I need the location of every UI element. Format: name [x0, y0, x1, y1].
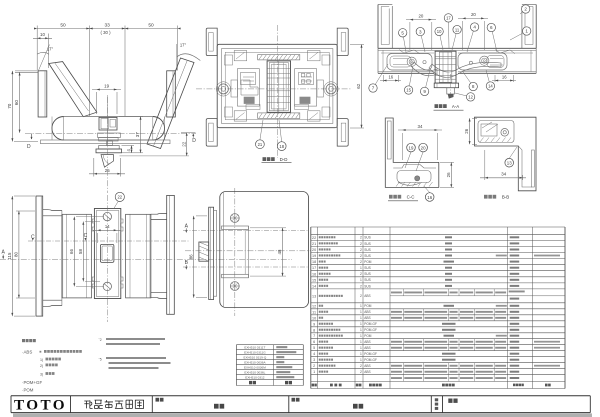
svg-text:ABS: ABS [364, 370, 370, 374]
svg-text:50: 50 [148, 23, 154, 29]
svg-text:11: 11 [455, 27, 460, 32]
svg-text:B-B: B-B [502, 194, 509, 199]
svg-text:1: 1 [360, 266, 362, 270]
svg-text:115: 115 [7, 252, 12, 260]
svg-text:TOTO: TOTO [14, 397, 67, 414]
svg-text:14: 14 [105, 224, 110, 229]
svg-text:2: 2 [313, 364, 315, 368]
svg-text:12: 12 [312, 304, 316, 308]
svg-text:34: 34 [501, 171, 506, 176]
svg-text:10: 10 [40, 32, 45, 37]
svg-text:POM: POM [364, 260, 372, 264]
svg-text:6: 6 [490, 25, 493, 30]
svg-text:1: 1 [360, 316, 362, 320]
svg-text:·ABS: ·ABS [22, 349, 32, 354]
svg-text:SUS: SUS [364, 236, 371, 240]
svg-text:2: 2 [524, 7, 527, 12]
svg-text:7: 7 [372, 86, 375, 91]
svg-text:POM-GF: POM-GF [364, 358, 377, 362]
svg-text:ABS: ABS [364, 340, 370, 344]
svg-text:14: 14 [488, 84, 493, 89]
svg-text:13: 13 [507, 161, 512, 166]
svg-text:‶5: ‶5 [99, 357, 102, 361]
svg-text:POM-GF: POM-GF [364, 322, 377, 326]
svg-text:17°: 17° [47, 47, 54, 52]
svg-text:12: 12 [468, 95, 473, 100]
svg-text:3: 3 [313, 358, 315, 362]
svg-text:10: 10 [437, 29, 442, 34]
svg-text:3: 3 [419, 29, 422, 34]
svg-text:1: 1 [360, 304, 362, 308]
svg-text:SUS: SUS [364, 266, 371, 270]
svg-text:62: 62 [356, 83, 361, 89]
svg-text:A-A: A-A [452, 104, 459, 109]
svg-text:37: 37 [135, 132, 140, 138]
svg-text:2: 2 [360, 242, 362, 246]
svg-text:ABS: ABS [364, 346, 370, 350]
svg-text:16: 16 [388, 75, 393, 80]
svg-text:50: 50 [60, 23, 66, 29]
svg-text:16: 16 [427, 195, 432, 200]
svg-text:C-C: C-C [407, 194, 415, 199]
svg-text:6: 6 [313, 340, 315, 344]
svg-text:20: 20 [312, 248, 316, 252]
svg-text:1: 1 [360, 278, 362, 282]
svg-text:17°: 17° [180, 43, 187, 48]
svg-text:2: 2 [360, 284, 362, 288]
svg-text:70: 70 [7, 103, 12, 109]
svg-text:2): 2) [40, 364, 43, 368]
svg-text:80: 80 [14, 252, 19, 257]
svg-text:10: 10 [312, 316, 316, 320]
svg-text:EXH510 0319-Q: EXH510 0319-Q [244, 356, 267, 360]
svg-text:8: 8 [472, 84, 475, 89]
svg-text:17: 17 [312, 266, 316, 270]
svg-text:22: 22 [312, 236, 316, 240]
svg-text:26: 26 [446, 172, 451, 177]
svg-text:1: 1 [360, 358, 362, 362]
svg-text:2: 2 [360, 260, 362, 264]
svg-text:POM-GF: POM-GF [364, 352, 377, 356]
svg-text:1: 1 [360, 352, 362, 356]
svg-text:20: 20 [471, 12, 476, 17]
svg-text:9: 9 [313, 322, 315, 326]
svg-text:1: 1 [360, 334, 362, 338]
svg-text:2: 2 [360, 294, 362, 298]
svg-text:20: 20 [418, 13, 423, 18]
svg-text:SUS: SUS [364, 278, 371, 282]
svg-text:1: 1 [525, 29, 528, 34]
svg-text:SUS: SUS [364, 248, 371, 252]
svg-text:4: 4 [313, 352, 315, 356]
svg-text:·POM: ·POM [22, 387, 34, 392]
svg-text:D-D: D-D [280, 157, 288, 162]
svg-text:5: 5 [313, 346, 315, 350]
svg-text:14: 14 [312, 284, 316, 288]
svg-text:66: 66 [69, 249, 74, 254]
svg-text:25: 25 [105, 168, 110, 173]
svg-text:16: 16 [502, 75, 507, 80]
svg-text:1: 1 [360, 340, 362, 344]
svg-text:22: 22 [181, 141, 186, 147]
svg-text:EXH510 0036A: EXH510 0036A [244, 361, 266, 365]
svg-text:1: 1 [360, 346, 362, 350]
svg-text:5: 5 [401, 31, 404, 36]
svg-text:4: 4 [473, 25, 476, 30]
svg-text:EXH510 0311G: EXH510 0311G [244, 351, 266, 355]
svg-text:3): 3) [40, 373, 43, 377]
svg-text:21: 21 [312, 242, 316, 246]
svg-text:19: 19 [104, 84, 109, 89]
svg-text:1: 1 [360, 322, 362, 326]
svg-text:21: 21 [258, 142, 263, 147]
svg-text:33: 33 [105, 23, 111, 29]
svg-text:POM: POM [364, 334, 372, 338]
svg-text:15: 15 [312, 278, 316, 282]
svg-text:60: 60 [14, 100, 19, 106]
svg-text:13: 13 [312, 294, 316, 298]
svg-text:2: 2 [360, 370, 362, 374]
svg-text:1: 1 [360, 310, 362, 314]
svg-text:SUS: SUS [364, 272, 371, 276]
svg-text:34: 34 [418, 124, 423, 129]
svg-text:15: 15 [406, 88, 411, 93]
svg-text:ABS: ABS [364, 294, 370, 298]
svg-text:16: 16 [312, 272, 316, 276]
svg-text:58: 58 [78, 249, 83, 254]
svg-text:‶2: ‶2 [99, 338, 102, 342]
svg-text:9: 9 [423, 89, 426, 94]
svg-text:D: D [192, 138, 196, 144]
svg-text:ABS: ABS [364, 310, 370, 314]
svg-text:26: 26 [464, 128, 469, 133]
svg-text:22: 22 [117, 195, 122, 200]
svg-text:17: 17 [446, 16, 451, 21]
svg-text:19: 19 [312, 254, 316, 258]
svg-text:·POM+GF: ·POM+GF [22, 380, 42, 385]
svg-text:48: 48 [277, 249, 282, 254]
svg-text:86: 86 [188, 254, 193, 259]
svg-text:20: 20 [421, 145, 426, 150]
svg-text:( 30 ): ( 30 ) [100, 30, 111, 35]
svg-text:D: D [27, 144, 31, 150]
svg-text:2: 2 [360, 254, 362, 258]
svg-text:2: 2 [360, 364, 362, 368]
svg-text:19: 19 [409, 145, 414, 150]
svg-text:11: 11 [312, 310, 316, 314]
svg-text:1: 1 [313, 370, 315, 374]
svg-text:SUS: SUS [364, 254, 371, 258]
svg-text:ABS: ABS [364, 316, 370, 320]
svg-text:1): 1) [40, 358, 43, 362]
svg-text:2: 2 [360, 248, 362, 252]
svg-text:EXH510 0036L: EXH510 0036L [244, 371, 265, 375]
svg-text:EXH510 0311T: EXH510 0311T [244, 346, 265, 350]
svg-text:8: 8 [313, 328, 315, 332]
svg-text:EXH510 0036M: EXH510 0036M [244, 366, 266, 370]
svg-text:ABS: ABS [364, 364, 370, 368]
svg-text:SUS: SUS [364, 242, 371, 246]
svg-text:POM-GF: POM-GF [364, 328, 377, 332]
svg-text:7: 7 [313, 334, 315, 338]
svg-text:SUS: SUS [364, 284, 371, 288]
svg-text:18: 18 [312, 260, 316, 264]
svg-text:2: 2 [360, 272, 362, 276]
svg-text:2: 2 [360, 236, 362, 240]
svg-text:1: 1 [360, 328, 362, 332]
svg-text:POM: POM [364, 304, 372, 308]
svg-text:18: 18 [279, 144, 284, 149]
svg-text:EXH510 0312: EXH510 0312 [245, 376, 265, 380]
